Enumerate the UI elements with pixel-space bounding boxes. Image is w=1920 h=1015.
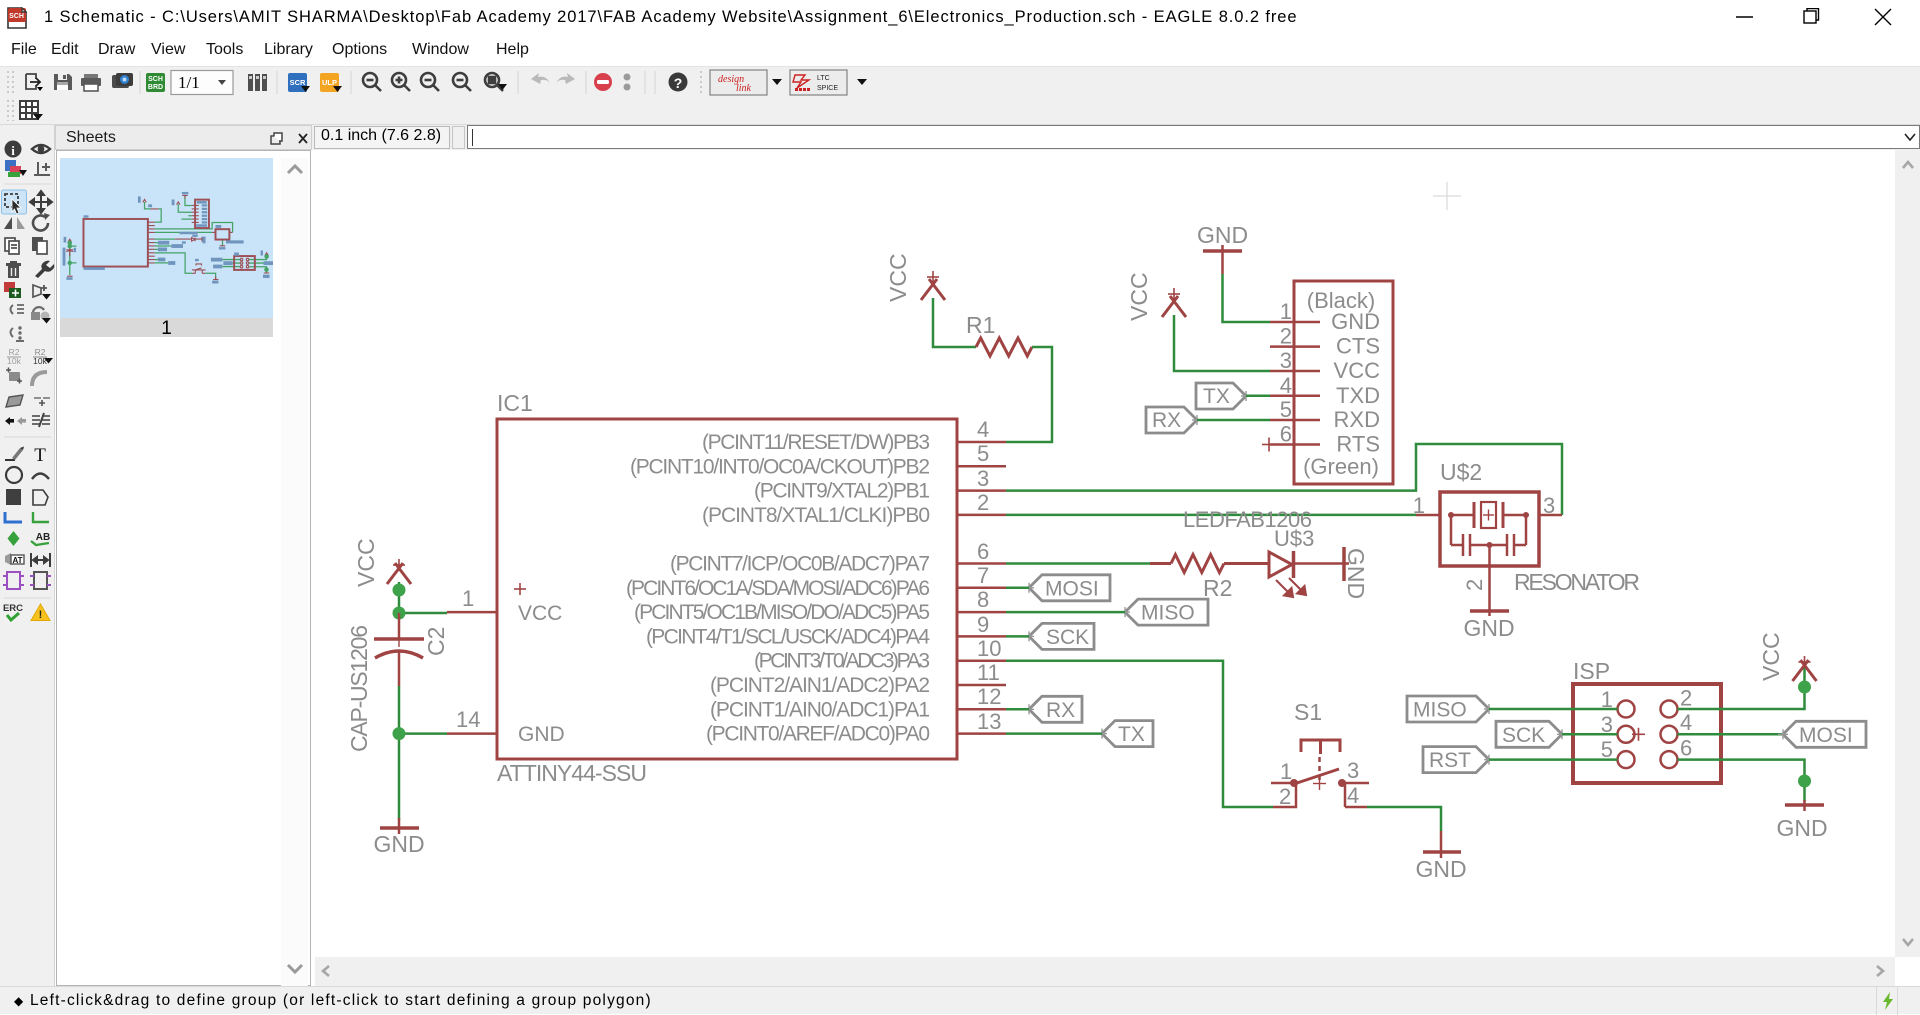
net flag RX (IC) (1024, 696, 1082, 722)
svg-text:TX: TX (1203, 385, 1230, 408)
svg-text:(PCINT6/OC1A/SDA/MOSI/ADC6)PA6: (PCINT6/OC1A/SDA/MOSI/ADC6)PA6 (626, 577, 930, 600)
sheet cursor mark (1433, 182, 1461, 210)
row: mirror / rotate (4, 217, 25, 229)
IC1 name label (497, 390, 533, 416)
capacitor C2 (374, 613, 424, 686)
net flag TX (FTDI) (1196, 383, 1251, 409)
ISP pin numbers (1601, 686, 1693, 763)
svg-text:SCR: SCR (290, 78, 306, 87)
wire PB0 to resonator pin1 (1006, 514, 1416, 517)
svg-text:2: 2 (977, 490, 989, 515)
svg-text:MISO: MISO (1141, 602, 1195, 625)
svg-text:VCC: VCC (518, 602, 562, 625)
C2 origin cross (398, 631, 400, 647)
svg-text:(PCINT10/INT0/OC0A/CKOUT)PB2: (PCINT10/INT0/OC0A/CKOUT)PB2 (630, 455, 930, 478)
svg-text:SPICE: SPICE (817, 85, 838, 92)
svg-text:VCC: VCC (1126, 272, 1152, 321)
IC1 value label ATTINY44-SSU (497, 760, 647, 786)
GND label (1197, 222, 1248, 248)
svg-text:5: 5 (977, 441, 989, 466)
LED U$3 (1269, 551, 1349, 578)
R1 label (966, 312, 995, 338)
SCR icon (288, 73, 310, 92)
VCC symbol at C2 (387, 563, 411, 584)
svg-text:13: 13 (977, 709, 1001, 734)
undo / redo (531, 73, 575, 84)
svg-text:VCC: VCC (1758, 632, 1784, 681)
export icon (26, 74, 43, 91)
svg-text:GND: GND (1343, 548, 1369, 599)
wire pin8 to MISO (1006, 611, 1125, 614)
svg-text:1: 1 (1413, 493, 1425, 518)
ISP label (1573, 658, 1610, 684)
svg-text:SCH: SCH (148, 76, 163, 83)
S1 origin cross (1313, 777, 1326, 790)
svg-text:1: 1 (462, 586, 474, 611)
net flag MOSI (IC) (1024, 575, 1110, 601)
row: delete / wrench (6, 261, 21, 278)
svg-text:3: 3 (1543, 493, 1555, 518)
svg-text:MISO: MISO (1413, 699, 1467, 722)
wire R1 to IC pin 4 (1006, 347, 1052, 442)
junction dot (1798, 681, 1811, 694)
svg-text:U$2: U$2 (1440, 459, 1482, 485)
svg-text:ERC: ERC (3, 603, 23, 614)
svg-text:10: 10 (977, 636, 1001, 661)
svg-text:3: 3 (1347, 758, 1359, 783)
GND below resonator (1470, 609, 1509, 613)
svg-text:TX: TX (1118, 723, 1145, 746)
FTDI pin stubs (1270, 322, 1320, 445)
row: layers / mark (5, 160, 27, 177)
svg-text:CAP-US1206: CAP-US1206 (346, 625, 372, 752)
row: frame purple / frame gray (3, 572, 24, 589)
row: select(highlight) / move (2, 190, 27, 214)
resistor R2 (1150, 555, 1269, 573)
maroon (66, 195, 269, 279)
svg-text:5: 5 (1601, 737, 1613, 762)
svg-text:11: 11 (977, 660, 1000, 685)
row: add part / add lib (4, 282, 21, 298)
svg-text:(PCINT3/T0/ADC3)PA3: (PCINT3/T0/ADC3)PA3 (754, 650, 930, 673)
dotted grip (8, 71, 13, 94)
resonator origin cross (1483, 510, 1494, 521)
text blocks (blue) (63, 192, 276, 284)
help (669, 73, 688, 92)
junction dots (393, 584, 406, 620)
svg-text:1: 1 (1280, 299, 1292, 324)
svg-text:SCK: SCK (1502, 724, 1545, 747)
svg-text:GND: GND (1463, 615, 1514, 641)
svg-text:2: 2 (1462, 579, 1487, 591)
U$2 label (1440, 459, 1482, 485)
svg-text:4: 4 (1347, 783, 1359, 808)
svg-text:(PCINT7/ICP/OC0B/ADC7)PA7: (PCINT7/ICP/OC0B/ADC7)PA7 (670, 553, 930, 576)
VCC label (rotated) (1126, 272, 1152, 321)
IC1 left pin 1 VCC stub (447, 611, 497, 614)
svg-text:(PCINT9/XTAL2)PB1: (PCINT9/XTAL2)PB1 (754, 480, 930, 503)
svg-text:2: 2 (1280, 324, 1292, 349)
print icon (81, 74, 101, 91)
junction dot (393, 727, 406, 740)
wire VCC to FTDI pin3 (1174, 315, 1270, 371)
svg-text:SCK: SCK (1046, 626, 1089, 649)
S1 pin numbers (1279, 758, 1359, 809)
GND symbol above FTDI (1203, 245, 1242, 274)
S1 label (1294, 699, 1322, 725)
wire TX flag to pin4 (1246, 395, 1270, 398)
net flag SCK (ISP) (1496, 721, 1567, 747)
svg-text:C2: C2 (423, 627, 449, 656)
svg-text:RTS: RTS (1336, 432, 1380, 457)
net flag RST (ISP) (1423, 747, 1494, 773)
zoom tools (363, 73, 507, 91)
svg-text:CTS: CTS (1336, 334, 1380, 359)
bars icon (248, 74, 267, 91)
net flag MISO (IC) (1120, 599, 1208, 625)
LTC SPICE button (790, 70, 847, 95)
resonator pins stubs (1416, 515, 1562, 616)
svg-text:MOSI: MOSI (1045, 577, 1099, 600)
wire C2 to GND and pin14 (399, 686, 447, 820)
green dots (68, 241, 269, 272)
svg-text:ISP: ISP (1573, 658, 1610, 684)
svg-text:(PCINT11/RESET/DW)PB3: (PCINT11/RESET/DW)PB3 (702, 431, 930, 454)
row: bus / net (5, 512, 22, 522)
svg-text:!: ! (39, 609, 43, 621)
svg-text:(PCINT1/AIN0/ADC1)PA1: (PCINT1/AIN0/ADC1)PA1 (710, 698, 930, 721)
svg-text:6: 6 (1280, 422, 1292, 447)
design link button (710, 70, 767, 95)
wire VCC to C2 and pin1 (399, 582, 447, 613)
RESONATOR label (1514, 569, 1640, 595)
svg-text:1/1: 1/1 (178, 73, 200, 92)
wire ISP pin4 to MOSI (1678, 733, 1784, 736)
net flag TX (IC) (1097, 721, 1153, 747)
row: split / optimize (6, 395, 23, 407)
FTDI origin cross (1262, 438, 1276, 452)
wire ISP pin6 to GND (1678, 760, 1805, 802)
svg-text:?: ? (674, 75, 683, 91)
row: ERC / warning (3, 603, 23, 620)
IC1 ATTINY44-SSU body (497, 419, 957, 759)
FTDI (Black) label (1307, 288, 1375, 313)
IC1 pin numbers (456, 417, 1001, 734)
svg-text:(PCINT8/XTAL1/CLKI)PB0: (PCINT8/XTAL1/CLKI)PB0 (702, 504, 930, 527)
svg-text:R2: R2 (1203, 575, 1232, 601)
row: copy / paste (5, 238, 19, 254)
GND label (373, 831, 424, 857)
FTDI connector body (1294, 281, 1393, 484)
IC1 pin name labels (518, 431, 930, 746)
svg-text:(PCINT0/AREF/ADC0)PA0: (PCINT0/AREF/ADC0)PA0 (706, 723, 930, 746)
row: R2 10k gray / with arrow (7, 347, 22, 366)
resonator pin numbers (1413, 493, 1556, 591)
ISP origin cross (1632, 728, 1645, 741)
svg-text:VCC: VCC (353, 538, 379, 587)
row: junction / label (8, 531, 20, 546)
GND right of LED (rotated) (1342, 547, 1346, 581)
svg-text:12: 12 (977, 684, 1001, 709)
SCH/BRD icon (146, 73, 165, 92)
VCC symbol at R1 (921, 279, 945, 300)
svg-text:GND: GND (373, 831, 424, 857)
ULP icon (320, 73, 342, 92)
row: info / eye (5, 141, 22, 158)
image/camera icon (112, 73, 133, 88)
FTDI pin names (1331, 309, 1380, 457)
wire GND to FTDI pin1 (1223, 274, 1271, 322)
svg-text:GND: GND (1197, 222, 1248, 248)
svg-text:TXD: TXD (1336, 383, 1380, 408)
C2 name label (rotated) (423, 627, 449, 656)
wire pin12 to RX (1006, 708, 1029, 711)
IC1 right pin stubs (957, 442, 1006, 734)
svg-text:ATTINY44-SSU: ATTINY44-SSU (497, 760, 647, 786)
svg-text:RX: RX (1152, 409, 1181, 432)
svg-text:6: 6 (977, 539, 989, 564)
save icon (54, 74, 72, 90)
FTDI pin numbers (1280, 299, 1292, 447)
svg-text:RESONATOR: RESONATOR (1514, 569, 1640, 595)
svg-text:AT: AT (12, 556, 22, 565)
svg-text:GND: GND (1415, 856, 1466, 882)
ISP pads (1618, 701, 1678, 769)
resonator internals (1451, 502, 1526, 566)
junction dot (1798, 775, 1811, 788)
svg-text:2: 2 (1279, 784, 1291, 809)
svg-text:AB: AB (36, 532, 50, 543)
wire RX flag to pin5 (1197, 419, 1270, 422)
wire pin13 to TX (1006, 732, 1102, 735)
row: rect / polygon (6, 489, 21, 505)
LEDFAB1206 label (1183, 507, 1312, 532)
row: invoke / group (11, 305, 25, 314)
svg-text:RX: RX (1046, 699, 1075, 722)
wire ISP pin2 to VCC (1678, 664, 1805, 709)
wire PB1 to resonator pin3 (1006, 444, 1562, 515)
svg-text:VCC: VCC (1334, 358, 1381, 383)
svg-text:BRD: BRD (148, 84, 163, 91)
net flag MOSI (ISP) (1778, 721, 1866, 747)
svg-text:8: 8 (977, 587, 989, 612)
svg-text:LTC: LTC (817, 75, 830, 82)
svg-text:SCH: SCH (9, 13, 24, 20)
net flag RX (FTDI) (1146, 407, 1202, 433)
svg-text:link: link (736, 83, 752, 94)
svg-text:U$3: U$3 (1274, 526, 1314, 551)
svg-text:9: 9 (977, 612, 989, 637)
svg-text:4: 4 (1680, 710, 1692, 735)
svg-text:GND: GND (518, 723, 565, 746)
svg-text:S1: S1 (1294, 699, 1322, 725)
switch S1 (1271, 740, 1369, 807)
C2 value CAP-US1206 (rotated) (346, 625, 372, 752)
VCC symbol at FTDI (1162, 296, 1186, 317)
svg-text:4: 4 (1280, 373, 1292, 398)
svg-text:7: 7 (977, 563, 989, 588)
wire pin9 to SCK (1006, 635, 1029, 638)
net flag SCK (IC) (1024, 623, 1094, 649)
resonator U$2 body (1440, 492, 1539, 566)
svg-text:IC1: IC1 (497, 390, 533, 416)
wire RST to ISP pin5 (1489, 758, 1618, 761)
row: wire / text (5, 447, 24, 461)
svg-text:3: 3 (977, 466, 989, 491)
wire S1 to GND (1367, 807, 1441, 831)
GND below ISP (1785, 800, 1824, 811)
svg-text:i: i (11, 143, 15, 158)
svg-text:6: 6 (1680, 736, 1692, 761)
stop (594, 73, 612, 91)
svg-text:(PCINT4/T1/SCL/USCK/ADC4)PA4: (PCINT4/T1/SCL/USCK/ADC4)PA4 (646, 625, 930, 648)
R2 label (1203, 575, 1232, 601)
VCC symbol at ISP (1793, 660, 1817, 681)
row: circle / arc (6, 467, 22, 483)
svg-text:VCC: VCC (885, 253, 911, 302)
row: smash / miter (6, 368, 22, 384)
svg-text:14: 14 (456, 707, 480, 732)
IC1 left pin 14 GND stub (447, 732, 497, 735)
wire SCK to ISP pin3 (1562, 733, 1618, 736)
thumbnail (60, 158, 273, 318)
svg-text:MOSI: MOSI (1799, 724, 1853, 747)
svg-text:(Green): (Green) (1303, 454, 1379, 479)
resistor R1 (976, 338, 1032, 356)
svg-text:RST: RST (1429, 749, 1471, 772)
sheets scrollbar (281, 158, 308, 986)
wire VCC to R1 (933, 298, 976, 347)
VCC label (rotated) (353, 538, 379, 587)
wire PA3 to S1 (1006, 661, 1273, 807)
net flag MISO (ISP) (1407, 696, 1494, 722)
svg-text:T: T (34, 445, 46, 466)
VCC label (rotated) (885, 253, 911, 302)
svg-text:GND: GND (1331, 309, 1380, 334)
svg-text:RXD: RXD (1334, 407, 1380, 432)
dots (624, 74, 631, 81)
row: pinswap / gateswap (5, 417, 26, 425)
svg-text:(PCINT2/AIN1/ADC2)PA2: (PCINT2/AIN1/ADC2)PA2 (710, 674, 930, 697)
wire pin7 to MOSI (1006, 587, 1029, 590)
GND symbol below C2 (380, 818, 419, 834)
svg-text:R1: R1 (966, 312, 995, 338)
svg-text:5: 5 (1280, 397, 1292, 422)
svg-text:(PCINT5/OC1B/MISO/DO/ADC5)PA5: (PCINT5/OC1B/MISO/DO/ADC5)PA5 (634, 601, 930, 624)
IC1 origin cross (514, 583, 526, 595)
svg-text:3: 3 (1280, 348, 1292, 373)
wire MISO to ISP pin1 (1489, 708, 1618, 711)
svg-text:1: 1 (1280, 759, 1292, 784)
VCC label (rotated) (1758, 632, 1784, 681)
wires (green) (70, 196, 267, 280)
svg-text:2: 2 (1680, 686, 1692, 711)
svg-text:GND: GND (1776, 815, 1827, 841)
LED arrows (1276, 578, 1306, 597)
row: change (11, 326, 25, 342)
wire PA7 to R2 (1006, 562, 1150, 565)
ISP connector body (1573, 684, 1721, 783)
svg-text:ULP: ULP (322, 78, 337, 87)
row: attribute / dimension (5, 553, 24, 565)
U$3 label (1274, 526, 1314, 551)
svg-text:4: 4 (977, 417, 989, 442)
1/1 combo (171, 71, 233, 95)
GND below S1 (1423, 831, 1461, 858)
FTDI (Green) label (1303, 454, 1379, 479)
